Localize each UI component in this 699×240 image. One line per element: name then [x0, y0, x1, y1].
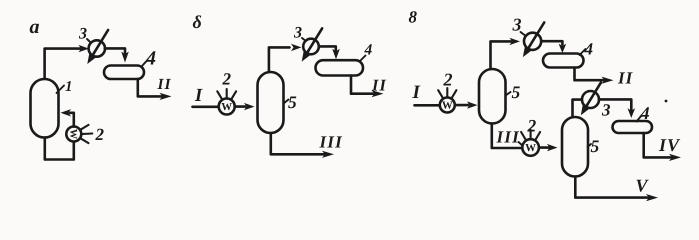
cooler 3a (diagram v) diagonal arrowhead	[523, 45, 533, 57]
wire heater 2 to vessel 5 (diagram b)	[235, 105, 245, 108]
stream label III (diagram v)	[496, 131, 519, 142]
arrowhead stream II (diagram a)	[160, 93, 172, 100]
label a (diagram a)	[30, 24, 39, 34]
label 5a (diagram v)	[512, 87, 520, 99]
tick label 5b to vessel (diagram v)	[588, 144, 592, 147]
separator 4a (diagram v)	[543, 54, 584, 68]
tick label 3 to cooler (diagram a)	[87, 39, 91, 43]
tick label 4b to separator (diagram v)	[637, 116, 642, 122]
wire heater 2b to vessel 5b (diagram v)	[539, 146, 551, 149]
arrowhead down into separator 4a (diagram v)	[559, 44, 567, 53]
label 4 (diagram b)	[364, 44, 372, 54]
arrowhead into vessel 5b (diagram v)	[547, 144, 558, 151]
arrowhead into vessel 1 (diagram a)	[61, 109, 72, 116]
wire vessel 1 bottom loop to heater 2 (diagram a)	[45, 138, 74, 160]
tick label 4 to separator (diagram b)	[360, 56, 366, 62]
separator 4b (diagram v)	[613, 121, 653, 133]
wire separator 4 to stream II (diagram b)	[351, 76, 374, 94]
stream label II (diagram v)	[618, 72, 633, 83]
arrowhead down into separator 4 (diagram a)	[121, 52, 129, 63]
wire heater 2a to vessel 5a (diagram v)	[455, 104, 468, 107]
tick label 4a to separator (diagram v)	[580, 49, 586, 55]
label 5b (diagram v)	[591, 141, 599, 153]
label 5 (diagram b)	[288, 97, 296, 109]
wire separator 4b to stream IV (diagram v)	[644, 133, 671, 157]
arrowhead stream V (diagram v)	[646, 194, 658, 201]
wire vessel 1 top to cooler 3 (diagram a)	[45, 49, 81, 80]
tick label 4 to separator (diagram a)	[142, 60, 148, 67]
wire cooler 3 to separator 4 (diagram b)	[319, 46, 336, 50]
wire stream I into heater 2 (diagram b)	[193, 106, 219, 109]
cooler 3 (diagram a)	[89, 30, 108, 58]
arrowhead into cooler 3a (diagram v)	[510, 38, 521, 45]
label 4 (diagram a)	[146, 51, 156, 64]
arrowhead into cooler 3 (diagram b)	[291, 44, 302, 51]
stream label II (diagram a)	[157, 79, 171, 89]
arrowhead stream II (diagram v)	[602, 77, 614, 84]
label b (diagram b)	[193, 15, 201, 28]
label 3 (diagram b)	[294, 27, 302, 38]
stream label II (diagram b)	[372, 80, 387, 91]
vessel 5 (diagram b)	[258, 72, 284, 133]
wire vessel 5a bottom to heater 2b (diagram v)	[492, 124, 523, 149]
heater 2a (diagram v)	[438, 88, 456, 113]
wire vessel 5 top to cooler 3 (diagram b)	[269, 47, 290, 72]
cooler 3 (diagram b)	[303, 28, 322, 55]
wire vessel 5b top to cooler 3b (diagram v)	[573, 100, 583, 117]
stream label III (diagram b)	[319, 136, 342, 147]
label 4a (diagram v)	[584, 43, 592, 54]
wire separator 4 to stream II (diagram a)	[138, 79, 162, 96]
label 2 for heater 2b (diagram v)	[527, 120, 536, 132]
label 2 for heater 2a (diagram v)	[443, 74, 452, 86]
cooler 3b (diagram v) diagonal arrowhead	[581, 104, 590, 116]
stream label I (diagram b)	[195, 89, 203, 101]
heater 2b (diagram v)	[521, 130, 540, 156]
wire heater 2 back into vessel 1 (diagram a)	[70, 113, 74, 127]
heater 2 (diagram b)	[217, 89, 236, 115]
arrowhead into vessel 5 (diagram b)	[244, 103, 255, 110]
arrowhead into vessel 5a (diagram v)	[467, 101, 478, 108]
tick label 1 to vessel (diagram a)	[57, 86, 65, 94]
tick label 5 to vessel (diagram b)	[284, 100, 289, 104]
tick label 3a to cooler (diagram v)	[521, 32, 525, 35]
tick label 3 to cooler (diagram b)	[302, 38, 306, 41]
arrowhead down into separator 4b (diagram v)	[628, 108, 636, 118]
tick label 5a to vessel (diagram v)	[506, 92, 511, 96]
stream label I (diagram v)	[412, 86, 420, 98]
arrowhead stream IV (diagram v)	[669, 154, 681, 161]
cooler 3a (diagram v)	[524, 23, 544, 52]
arrowhead down into separator 4 (diagram b)	[332, 49, 340, 60]
arrowhead into cooler 3 (diagram a)	[79, 45, 90, 52]
wire cooler 3b to separator 4b (diagram v)	[599, 99, 631, 110]
tick label III to heater 2b (diagram v)	[519, 142, 524, 146]
ink dot (diagram v)	[665, 100, 668, 103]
cooler 3b (diagram v)	[582, 83, 601, 110]
vessel 5b (diagram v)	[562, 117, 588, 177]
label 3 for cooler 3b (diagram v)	[602, 104, 610, 116]
separator 4 (diagram a)	[104, 66, 144, 80]
wire vessel 5b bottom to stream V (diagram v)	[575, 177, 648, 198]
wire vessel 5 bottom to stream III (diagram b)	[271, 133, 324, 154]
label 2 (diagram b)	[222, 73, 230, 84]
wire cooler 3a to separator 4a (diagram v)	[541, 41, 562, 44]
wire vessel 5a top to cooler 3a (diagram v)	[491, 41, 512, 69]
separator 4 (diagram b)	[316, 60, 364, 75]
label 3 for cooler 3a (diagram v)	[512, 19, 521, 31]
vessel 5a (diagram v)	[479, 69, 506, 124]
cooler 3 (diagram b) diagonal arrowhead	[302, 50, 312, 62]
wire cooler 3 to separator 4 (diagram a)	[105, 48, 125, 53]
label 4b (diagram v)	[640, 107, 649, 119]
label 2 (diagram a)	[95, 129, 103, 140]
vessel 1 (diagram a)	[31, 79, 59, 138]
label 1 (diagram a)	[65, 81, 71, 91]
heater 2 (diagram a)	[66, 125, 92, 143]
stream label IV (diagram v)	[659, 139, 680, 151]
label v (diagram v)	[409, 11, 417, 23]
wire separator 4a to stream II (diagram v)	[575, 68, 605, 81]
arrowhead stream III (diagram b)	[322, 151, 334, 158]
cooler 3 (diagram a) diagonal arrowhead	[87, 52, 97, 64]
arrowhead stream II (diagram b)	[372, 90, 384, 97]
label 3 (diagram a)	[79, 28, 87, 39]
stream label V (diagram v)	[637, 180, 649, 192]
wire stream I into heater 2a (diagram v)	[415, 104, 441, 107]
